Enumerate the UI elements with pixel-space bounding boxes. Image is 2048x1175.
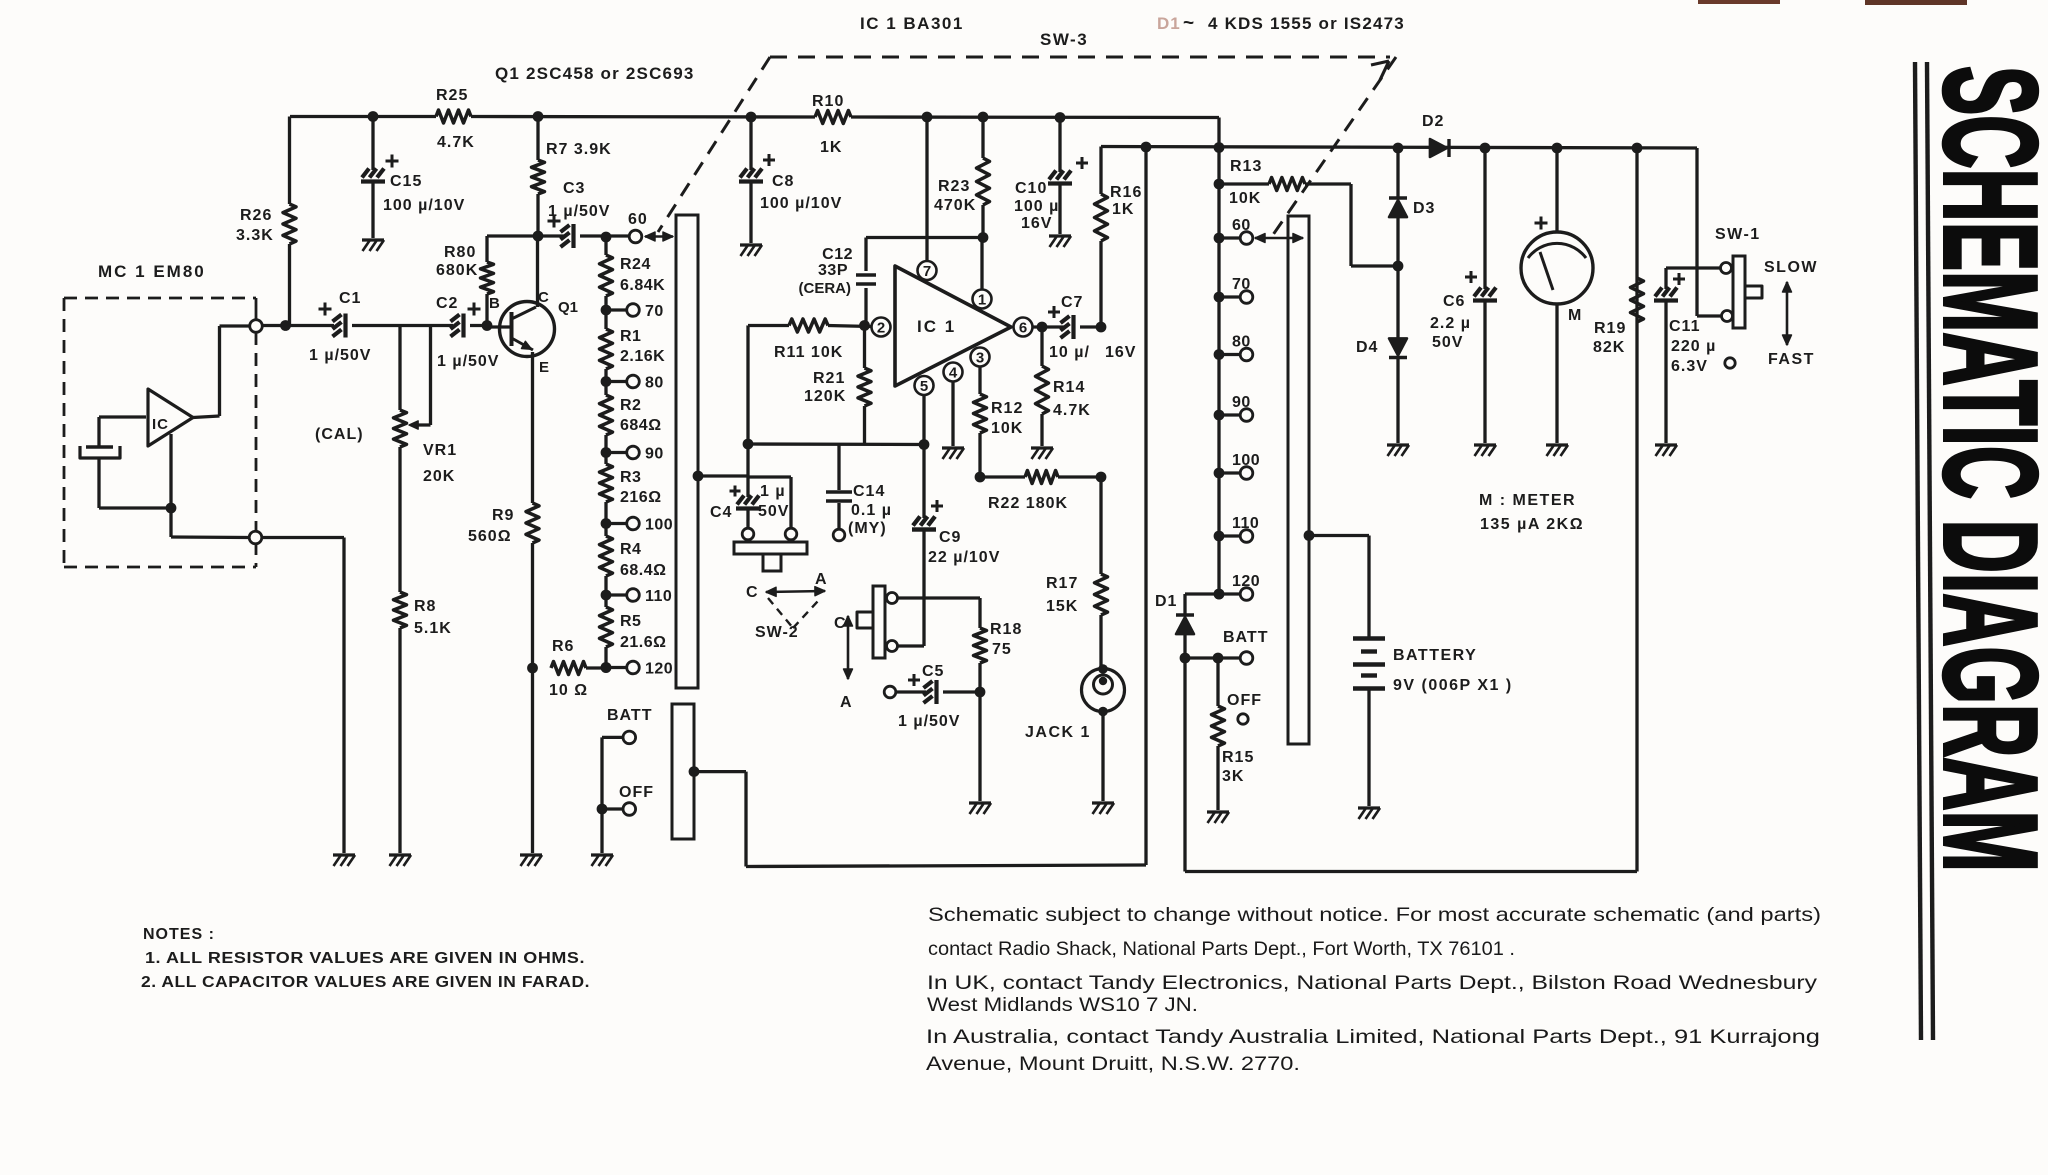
svg-text:R5: R5 <box>620 613 641 630</box>
svg-text:60: 60 <box>628 211 648 228</box>
svg-text:1 µ/50V: 1 µ/50V <box>437 353 499 370</box>
svg-text:SLOW: SLOW <box>1764 259 1818 276</box>
svg-text:VR1: VR1 <box>423 442 457 459</box>
svg-text:(CERA): (CERA) <box>799 280 852 297</box>
svg-text:100: 100 <box>645 517 673 534</box>
svg-text:SW-2: SW-2 <box>755 624 799 641</box>
svg-text:IC: IC <box>152 416 169 433</box>
svg-text:Avenue, Mount Druitt, N.S.W. 2: Avenue, Mount Druitt, N.S.W. 2770. <box>926 1053 1300 1075</box>
svg-text:1 µ: 1 µ <box>760 483 786 500</box>
svg-text:R24: R24 <box>620 256 651 273</box>
svg-text:R6: R6 <box>552 638 574 655</box>
svg-text:R17: R17 <box>1046 575 1078 592</box>
svg-text:BATTERY: BATTERY <box>1393 647 1477 664</box>
svg-text:1. ALL RESISTOR VALUES ARE: 1. ALL RESISTOR VALUES ARE GIVEN IN OHMS… <box>145 950 585 967</box>
svg-text:MC 1 EM80: MC 1 EM80 <box>98 262 206 281</box>
svg-text:680K: 680K <box>436 262 478 279</box>
svg-text:100 µ/10V: 100 µ/10V <box>383 197 465 214</box>
svg-text:R14: R14 <box>1053 379 1085 396</box>
svg-text:C3: C3 <box>563 180 585 197</box>
svg-text:OFF: OFF <box>619 784 654 801</box>
svg-text:R10: R10 <box>812 93 844 110</box>
svg-text:110: 110 <box>645 588 672 605</box>
svg-text:M: M <box>1568 307 1582 324</box>
svg-text:4.7K: 4.7K <box>1053 402 1091 419</box>
svg-text:16V: 16V <box>1105 344 1136 361</box>
svg-text:22 µ/10V: 22 µ/10V <box>928 549 1000 566</box>
svg-text:R11 10K: R11 10K <box>774 344 843 361</box>
svg-text:1 µ/50V: 1 µ/50V <box>898 713 960 730</box>
svg-text:50V: 50V <box>1432 334 1463 351</box>
svg-text:21.6Ω: 21.6Ω <box>620 634 666 651</box>
svg-text:SCHEMATIC DIAGRAM: SCHEMATIC DIAGRAM <box>1917 66 2048 872</box>
svg-text:16V: 16V <box>1021 215 1052 232</box>
svg-text:6: 6 <box>1019 320 1027 337</box>
svg-text:20K: 20K <box>423 468 455 485</box>
svg-text:R16: R16 <box>1110 184 1142 201</box>
svg-text:~: ~ <box>1183 13 1195 34</box>
svg-text:684Ω: 684Ω <box>620 417 662 434</box>
svg-text:1K: 1K <box>820 139 842 156</box>
svg-text:R26: R26 <box>240 207 272 224</box>
svg-text:10K: 10K <box>991 420 1023 437</box>
svg-text:West Midlands WS10 7 JN.: West Midlands WS10 7 JN. <box>927 994 1198 1016</box>
svg-text:In UK, contact Tandy Electroni: In UK, contact Tandy Electronics, Nation… <box>927 972 1817 994</box>
svg-text:BATT: BATT <box>1223 629 1268 646</box>
svg-text:C2: C2 <box>436 295 458 312</box>
svg-text:4.7K: 4.7K <box>437 134 475 151</box>
svg-text:2.2 µ: 2.2 µ <box>1430 315 1471 332</box>
svg-text:C8: C8 <box>772 173 794 190</box>
svg-text:A: A <box>840 694 852 711</box>
svg-text:A: A <box>815 571 827 588</box>
svg-text:1: 1 <box>978 292 986 309</box>
svg-text:Q1 2SC458 or 2SC693: Q1 2SC458 or 2SC693 <box>495 64 695 83</box>
svg-text:120: 120 <box>1232 573 1260 590</box>
svg-text:R15: R15 <box>1222 749 1254 766</box>
svg-text:contact Radio Shack, National: contact Radio Shack, National Parts Dept… <box>928 938 1515 960</box>
svg-text:R7 3.9K: R7 3.9K <box>546 141 612 158</box>
svg-text:70: 70 <box>645 303 664 320</box>
svg-text:4: 4 <box>949 365 958 382</box>
svg-text:C7: C7 <box>1061 294 1083 311</box>
svg-text:SW-1: SW-1 <box>1715 226 1761 243</box>
svg-text:68.4Ω: 68.4Ω <box>620 562 666 579</box>
svg-text:R9: R9 <box>492 507 514 524</box>
svg-text:BATT: BATT <box>607 707 652 724</box>
svg-text:120: 120 <box>645 661 673 678</box>
svg-text:1 µ/50V: 1 µ/50V <box>309 347 371 364</box>
svg-text:D2: D2 <box>1422 113 1444 130</box>
svg-text:5.1K: 5.1K <box>414 620 452 637</box>
svg-text:C14: C14 <box>853 483 885 500</box>
svg-text:C: C <box>538 289 549 306</box>
svg-text:(CAL): (CAL) <box>315 426 364 443</box>
svg-text:3K: 3K <box>1222 768 1244 785</box>
svg-text:470K: 470K <box>934 197 976 214</box>
svg-text:R21: R21 <box>813 370 845 387</box>
svg-text:NOTES :: NOTES : <box>143 926 215 943</box>
svg-text:1 µ/50V: 1 µ/50V <box>548 203 610 220</box>
svg-text:D1: D1 <box>1155 593 1177 610</box>
svg-text:3: 3 <box>976 350 984 367</box>
svg-text:OFF: OFF <box>1227 692 1262 709</box>
svg-text:R23: R23 <box>938 178 970 195</box>
svg-text:110: 110 <box>1232 515 1259 532</box>
svg-text:4 KDS 1555 or IS2473: 4 KDS 1555 or IS2473 <box>1208 14 1405 33</box>
svg-text:JACK 1: JACK 1 <box>1025 724 1091 741</box>
svg-text:R80: R80 <box>444 244 476 261</box>
svg-text:3.3K: 3.3K <box>236 227 274 244</box>
svg-text:100 µ/10V: 100 µ/10V <box>760 195 842 212</box>
svg-text:220 µ: 220 µ <box>1671 338 1716 355</box>
svg-text:15K: 15K <box>1046 598 1078 615</box>
svg-text:216Ω: 216Ω <box>620 489 662 506</box>
svg-text:135 µA 2KΩ: 135 µA 2KΩ <box>1480 516 1584 533</box>
svg-text:IC 1 BA301: IC 1 BA301 <box>860 14 964 33</box>
svg-text:E: E <box>539 359 549 376</box>
svg-text:R22 180K: R22 180K <box>988 495 1068 512</box>
svg-text:B: B <box>489 295 500 312</box>
svg-text:R3: R3 <box>620 469 641 486</box>
svg-text:0.1 µ: 0.1 µ <box>851 502 892 519</box>
svg-text:R8: R8 <box>414 598 436 615</box>
svg-text:C9: C9 <box>939 529 961 546</box>
svg-text:50V: 50V <box>758 503 789 520</box>
svg-text:SW-3: SW-3 <box>1040 30 1088 49</box>
svg-text:C: C <box>746 584 758 601</box>
svg-text:D4: D4 <box>1356 339 1378 356</box>
svg-text:82K: 82K <box>1593 339 1625 356</box>
svg-text:10 µ/: 10 µ/ <box>1049 344 1090 361</box>
svg-text:33P: 33P <box>818 262 848 279</box>
svg-text:R19: R19 <box>1594 320 1626 337</box>
svg-text:2. ALL CAPACITOR VALUES ARE: 2. ALL CAPACITOR VALUES ARE GIVEN IN FAR… <box>141 974 590 991</box>
svg-text:100: 100 <box>1232 452 1260 469</box>
svg-text:IC 1: IC 1 <box>917 317 956 336</box>
svg-text:D3: D3 <box>1413 200 1435 217</box>
svg-text:1K: 1K <box>1112 201 1134 218</box>
svg-text:FAST: FAST <box>1768 351 1815 368</box>
svg-text:C12: C12 <box>822 246 853 263</box>
svg-text:R1: R1 <box>620 328 641 345</box>
svg-text:5: 5 <box>920 378 928 395</box>
svg-text:80: 80 <box>645 375 664 392</box>
svg-text:C15: C15 <box>390 173 422 190</box>
svg-text:6.3V: 6.3V <box>1671 358 1708 375</box>
svg-text:9V (006P X1 ): 9V (006P X1 ) <box>1393 677 1513 694</box>
svg-text:C5: C5 <box>922 663 944 680</box>
svg-text:(MY): (MY) <box>848 520 887 537</box>
svg-text:M : METER: M : METER <box>1479 492 1576 509</box>
svg-text:2.16K: 2.16K <box>620 348 665 365</box>
svg-text:R25: R25 <box>436 87 468 104</box>
svg-text:C4: C4 <box>710 504 732 521</box>
svg-text:560Ω: 560Ω <box>468 528 512 545</box>
svg-text:R18: R18 <box>990 621 1022 638</box>
svg-text:80: 80 <box>1232 334 1251 351</box>
svg-text:Q1: Q1 <box>558 299 578 316</box>
svg-text:90: 90 <box>645 446 664 463</box>
svg-text:7: 7 <box>923 263 931 280</box>
svg-text:2: 2 <box>877 320 885 337</box>
svg-text:120K: 120K <box>804 388 846 405</box>
svg-text:R12: R12 <box>991 400 1023 417</box>
svg-text:6.84K: 6.84K <box>620 277 665 294</box>
svg-text:Schematic subject to change wi: Schematic subject to change without noti… <box>928 904 1821 926</box>
svg-text:R4: R4 <box>620 541 641 558</box>
svg-text:60: 60 <box>1232 217 1251 234</box>
svg-text:C10: C10 <box>1015 180 1047 197</box>
svg-text:R13: R13 <box>1230 158 1262 175</box>
svg-text:70: 70 <box>1232 276 1251 293</box>
svg-text:D1: D1 <box>1157 14 1181 33</box>
svg-text:In Australia, contact Tandy Au: In Australia, contact Tandy Australia Li… <box>926 1026 1820 1048</box>
svg-text:75: 75 <box>992 641 1012 658</box>
svg-text:R2: R2 <box>620 397 641 414</box>
svg-text:90: 90 <box>1232 394 1251 411</box>
svg-text:100 µ: 100 µ <box>1014 198 1059 215</box>
svg-text:C1: C1 <box>339 290 361 307</box>
svg-text:10 Ω: 10 Ω <box>549 682 588 699</box>
svg-text:C6: C6 <box>1443 293 1465 310</box>
svg-text:C11: C11 <box>1669 318 1700 335</box>
svg-text:10K: 10K <box>1229 190 1261 207</box>
